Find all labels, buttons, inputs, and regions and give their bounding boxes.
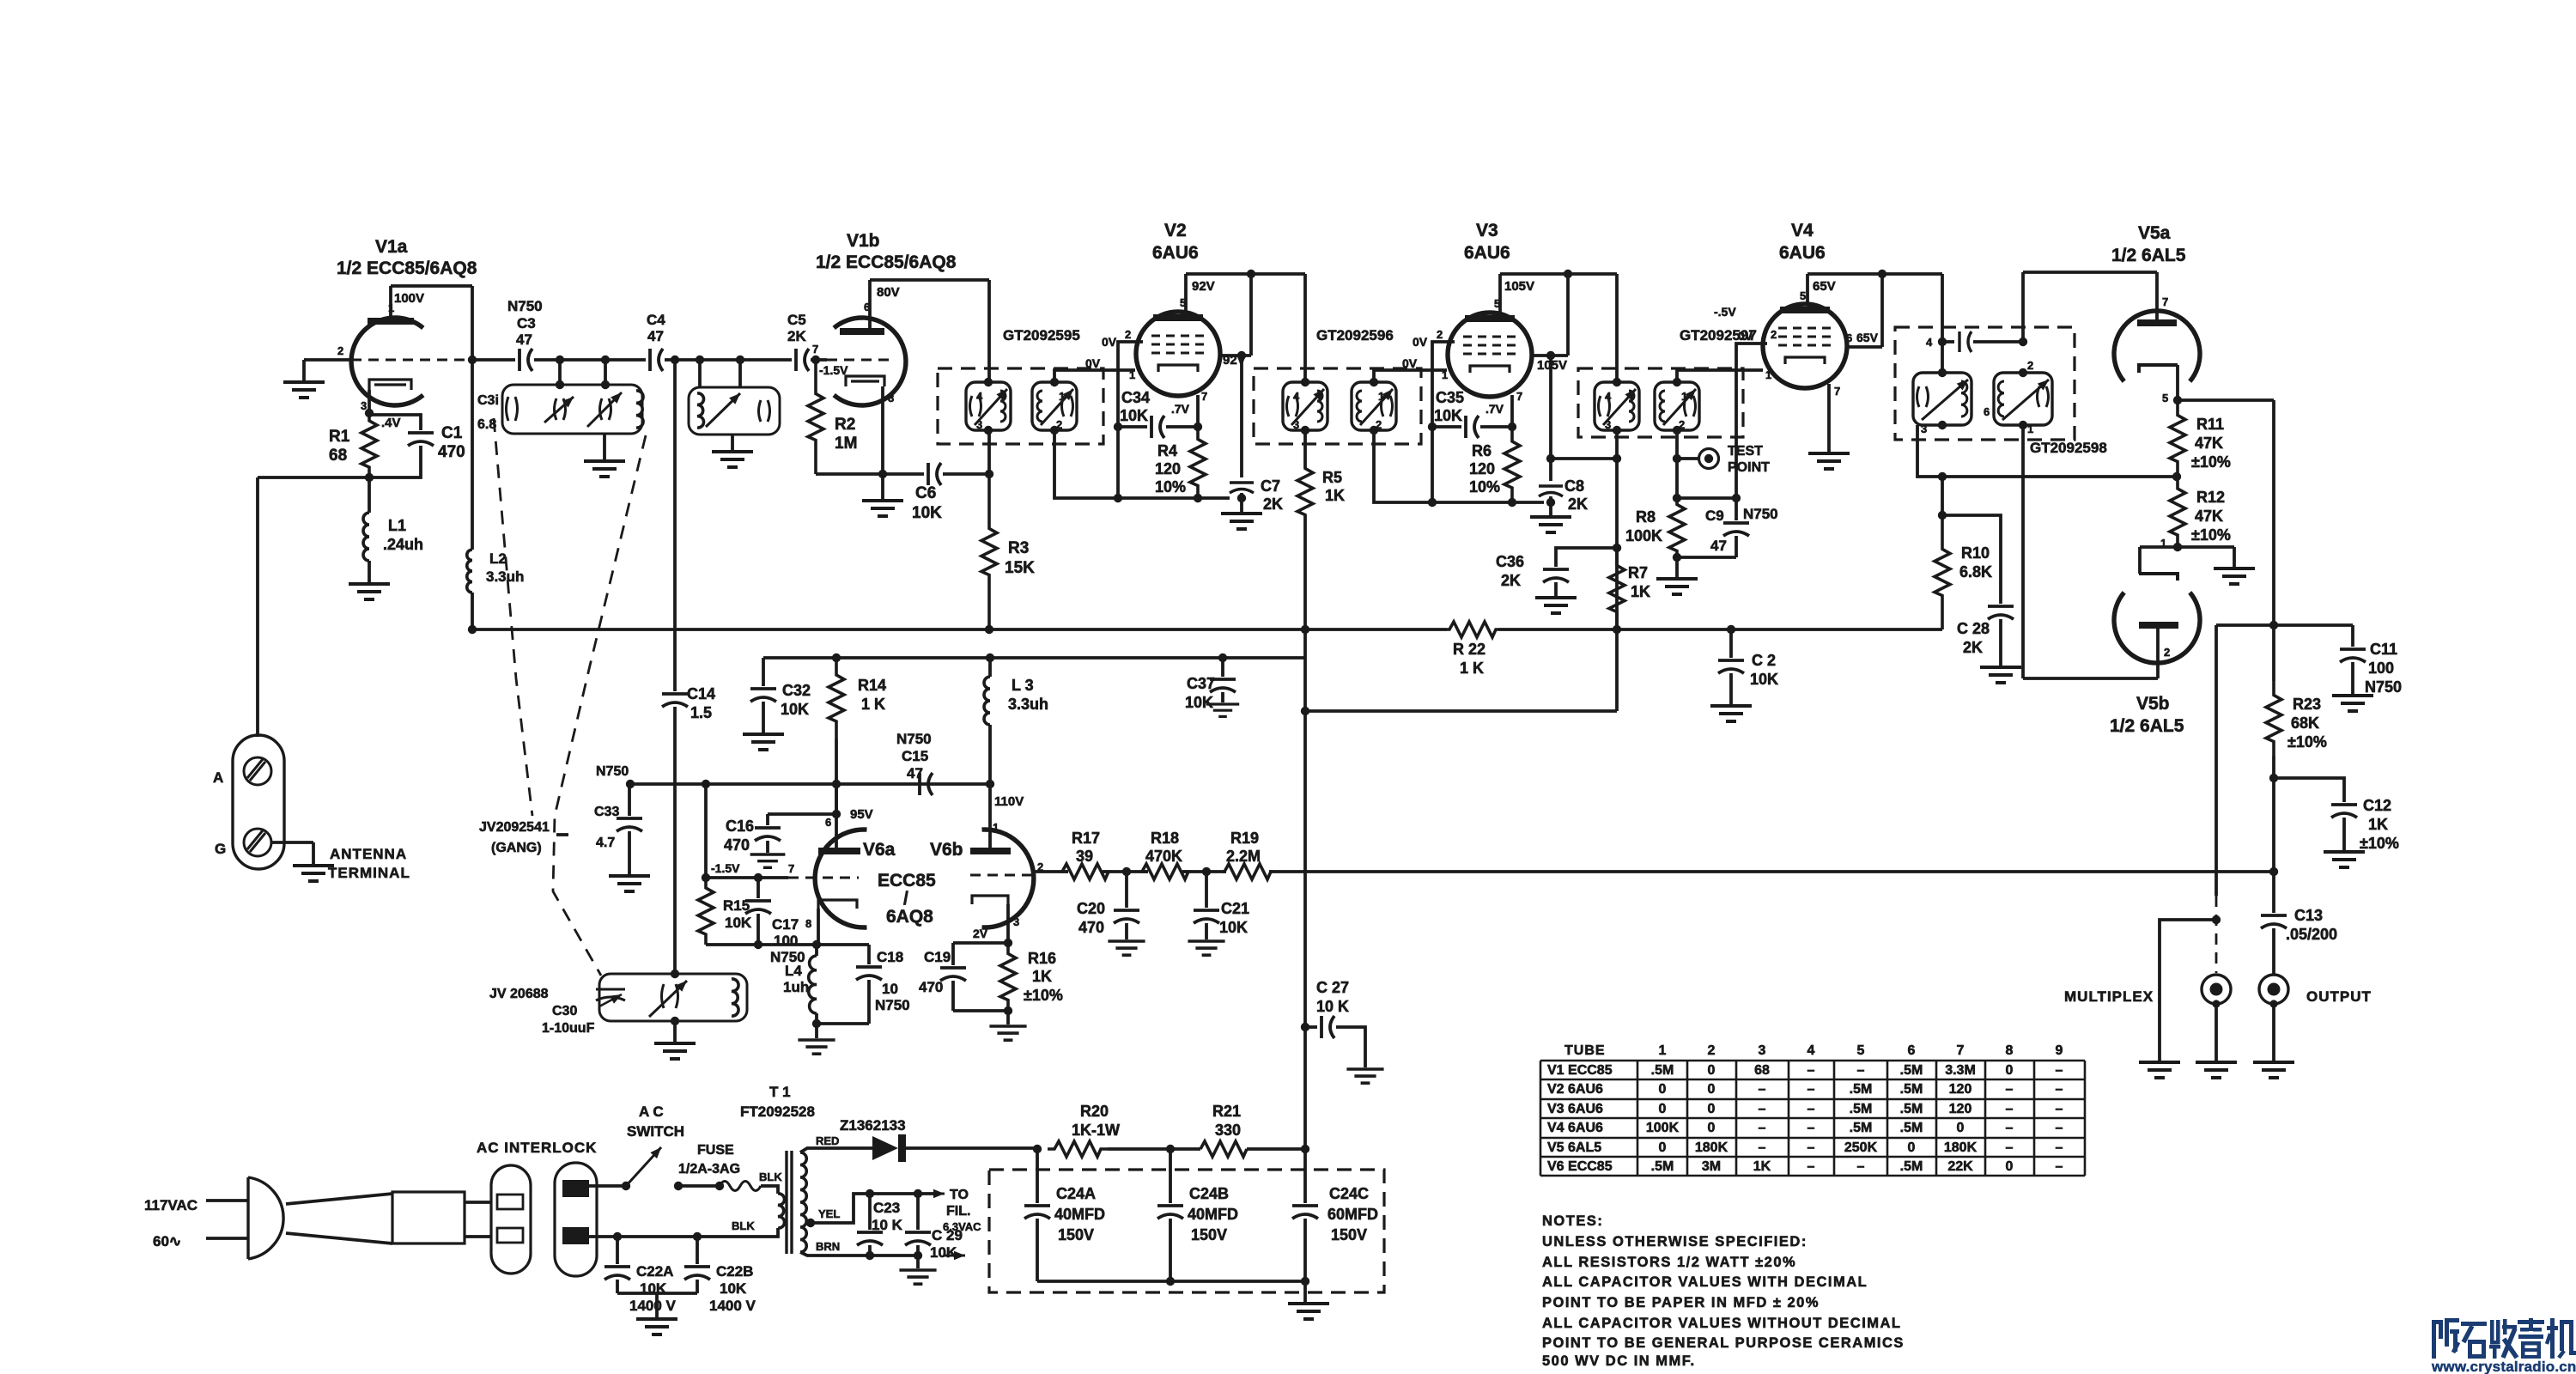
svg-text:R10: R10	[1961, 544, 1990, 562]
junction IF1 pri top	[984, 378, 993, 386]
inductor L4	[809, 956, 817, 1013]
junction R10 tap	[1938, 472, 1947, 481]
V1a plate lead	[389, 286, 392, 318]
ground under C16	[750, 854, 786, 867]
svg-text:Z1362133: Z1362133	[840, 1117, 906, 1134]
svg-text:2K: 2K	[1963, 639, 1983, 656]
capacitor C18	[856, 967, 882, 980]
svg-text:1K: 1K	[1325, 487, 1345, 504]
svg-text:1: 1	[1659, 1043, 1667, 1058]
T1 core a	[785, 1151, 787, 1254]
svg-text:10: 10	[882, 981, 898, 997]
pentode V2	[1136, 312, 1220, 396]
svg-text:R3: R3	[1008, 539, 1029, 557]
junction C20	[1122, 867, 1131, 876]
wire V3 pin2 drop	[1432, 342, 1455, 498]
svg-text:–: –	[1759, 1082, 1766, 1097]
svg-text:.24uh: .24uh	[383, 536, 423, 553]
svg-text:7: 7	[788, 862, 794, 875]
svg-text:1K: 1K	[2368, 816, 2388, 833]
svg-text:180K: 180K	[1944, 1140, 1978, 1155]
wire V1a plate to C3 node	[391, 284, 472, 288]
junction R20 left	[1033, 1145, 1042, 1153]
svg-text:68: 68	[1754, 1063, 1770, 1078]
svg-text:V2: V2	[1164, 221, 1187, 240]
svg-text:–: –	[1807, 1082, 1815, 1097]
junction R11 R12	[2172, 472, 2181, 481]
wire IF1 to R3	[987, 430, 991, 474]
wire G to ground	[271, 841, 313, 844]
wire C23 stem	[868, 1194, 872, 1230]
svg-text:–: –	[1807, 1140, 1815, 1155]
wire C22B lower	[696, 1280, 699, 1293]
wire R5 to bus	[1303, 515, 1307, 629]
svg-text:22K: 22K	[1947, 1159, 1973, 1174]
wire C21 stem	[1205, 872, 1208, 908]
wire C32 to ground	[762, 702, 765, 733]
wire C5 to V1b grid	[811, 358, 827, 362]
svg-text:0: 0	[1659, 1102, 1667, 1116]
junction R15 top	[702, 873, 710, 882]
wire C19 upper	[951, 943, 955, 965]
V6a grid (dashed)	[788, 877, 859, 879]
svg-text:15K: 15K	[1005, 559, 1035, 577]
resistor R19	[1224, 864, 1271, 879]
wire C21 to ground	[1205, 923, 1208, 939]
svg-text:±10%: ±10%	[1024, 987, 1063, 1004]
junction pin2/C9	[1732, 494, 1741, 502]
junction tank1 top a	[556, 380, 564, 389]
svg-text:C4: C4	[647, 312, 665, 328]
svg-text:0: 0	[1908, 1140, 1916, 1155]
junction fuse left	[715, 1182, 724, 1190]
junction osc tank bottom	[671, 1017, 679, 1025]
IF transformer GT2092595 (dashed box)	[938, 368, 1103, 444]
svg-text:1400 V: 1400 V	[709, 1298, 756, 1314]
svg-text:2K: 2K	[1568, 495, 1588, 513]
capacitor C28	[1988, 606, 2014, 619]
svg-text:R7: R7	[1628, 564, 1648, 581]
wire C24C stem	[1303, 1149, 1307, 1203]
wire C8 to ground	[1549, 496, 1552, 515]
svg-text:–: –	[2006, 1082, 2014, 1097]
svg-text:1 K: 1 K	[861, 696, 885, 713]
wire V1b plate rail	[870, 278, 989, 282]
svg-text:470: 470	[919, 979, 943, 995]
svg-text:10%: 10%	[1155, 478, 1186, 495]
wire rail to IF4	[1941, 274, 1944, 373]
capacitor C27 branch	[1305, 1025, 1317, 1029]
svg-text:0: 0	[1708, 1082, 1716, 1097]
wire V3 pin7 lead	[1510, 395, 1514, 427]
ground under C27	[1346, 1069, 1383, 1083]
resistor R7	[1609, 548, 1625, 629]
svg-text:3: 3	[1013, 915, 1019, 928]
junction cathode line	[878, 470, 887, 478]
resistor R4	[1190, 427, 1206, 498]
junction IF2 pri bottom	[1301, 426, 1309, 435]
junction C29 top	[914, 1189, 922, 1198]
T1 secondary winding	[800, 1152, 806, 1252]
wire R8 to ground	[1675, 557, 1679, 577]
svg-text:1: 1	[2027, 423, 2033, 435]
V1b grid (dashed)	[827, 359, 893, 362]
wire B+ riser	[1303, 629, 1307, 1149]
junction R4 top	[1194, 423, 1202, 431]
wire C17 stem	[756, 878, 760, 898]
pentode V3	[1448, 313, 1532, 397]
junction bus R3	[985, 625, 993, 634]
wire C9 top	[1677, 496, 1736, 500]
svg-text:C13: C13	[2294, 907, 2323, 924]
wire C27 to ground	[1336, 1027, 1365, 1067]
wire C22B stem	[696, 1237, 699, 1264]
svg-text:R5: R5	[1322, 469, 1342, 486]
svg-text:150V: 150V	[1191, 1226, 1227, 1243]
gang dashed link b	[553, 435, 646, 976]
resistor R5	[1297, 468, 1313, 515]
ground under C28	[1980, 667, 2021, 683]
svg-text:V1 ECC85: V1 ECC85	[1547, 1063, 1613, 1078]
capacitor C35	[1466, 416, 1479, 438]
svg-text:L2: L2	[489, 550, 507, 567]
junction pin2 line bottom	[1114, 494, 1122, 502]
svg-text:7: 7	[1516, 390, 1522, 403]
svg-text:60MFD: 60MFD	[1327, 1206, 1378, 1223]
svg-text:7: 7	[2162, 295, 2168, 308]
diode V5b envelope	[2114, 593, 2200, 663]
svg-text:.7V: .7V	[1171, 402, 1190, 416]
svg-text:.5M: .5M	[1900, 1063, 1923, 1078]
wire V6a cathode drop	[817, 909, 820, 945]
V6b grid (dashed)	[970, 874, 1033, 877]
junction rail riser	[2269, 621, 2278, 629]
antenna screw A	[244, 757, 271, 785]
wire L4 bottom	[815, 1013, 818, 1024]
svg-text:8: 8	[888, 392, 894, 404]
wire primary bottom lead	[771, 1228, 778, 1237]
svg-text:470: 470	[724, 836, 750, 854]
svg-text:39: 39	[1076, 848, 1093, 865]
ground under C37	[1206, 704, 1239, 716]
resistor R14	[829, 658, 844, 739]
wire R2 line to C6	[816, 472, 924, 476]
svg-text:47: 47	[647, 328, 664, 344]
capacitor C19 loop	[953, 941, 1008, 945]
svg-text:N750: N750	[507, 298, 543, 314]
junction IF3 pri bottom	[1613, 426, 1621, 435]
svg-text:ECC85: ECC85	[878, 871, 936, 891]
wire V6a plate upper	[835, 784, 838, 814]
wire C9 bottom	[1677, 556, 1736, 559]
junction C17 top	[754, 873, 762, 882]
V1b cathode	[846, 376, 884, 386]
junction 95V node	[832, 810, 841, 818]
svg-text:0: 0	[1659, 1140, 1667, 1155]
wire multiplex shield	[2160, 920, 2216, 1061]
svg-text:40MFD: 40MFD	[1054, 1206, 1105, 1223]
svg-text:2.2M: 2.2M	[1226, 848, 1261, 865]
wire V1b cathode drop	[881, 386, 884, 474]
trimmer arrow T1a	[544, 397, 574, 423]
junction C29 bottom	[914, 1251, 922, 1260]
svg-text:.5M: .5M	[1651, 1159, 1674, 1174]
svg-text:10 K: 10 K	[1316, 998, 1349, 1015]
capacitor C3	[519, 349, 532, 371]
variable capacitor arrow T1a (gang)	[587, 392, 622, 427]
capacitor C15	[920, 773, 933, 795]
wire cathode to detector riser	[2178, 398, 2274, 402]
svg-text:C3i: C3i	[477, 393, 499, 408]
svg-text:FUSE: FUSE	[697, 1143, 734, 1158]
svg-text:0: 0	[1957, 1121, 1965, 1135]
svg-text:60∿: 60∿	[153, 1233, 181, 1249]
junction IF1 pri bottom	[984, 426, 993, 435]
svg-text:1: 1	[1129, 368, 1135, 381]
svg-text:V5 6AL5: V5 6AL5	[1547, 1140, 1601, 1155]
wire C24A stem	[1036, 1149, 1039, 1203]
wire C13 to jack	[2272, 928, 2275, 975]
node V1a cathode	[365, 409, 374, 417]
svg-text:C24A: C24A	[1056, 1185, 1096, 1202]
wire switch to fuse	[678, 1184, 720, 1188]
ground multiplex jack	[2196, 1062, 2237, 1078]
svg-text:C 27: C 27	[1316, 979, 1349, 996]
capacitor C21	[1194, 910, 1219, 923]
wire L3 to C15 node	[988, 725, 992, 784]
inductor T1b coil	[697, 393, 704, 428]
svg-text:C5: C5	[787, 312, 806, 328]
junction bus L2	[468, 625, 477, 634]
wire V5a plate lead	[2155, 272, 2159, 319]
svg-text:–: –	[2056, 1063, 2063, 1078]
svg-text:4: 4	[976, 390, 983, 403]
wire multiplex drop solid	[2215, 625, 2218, 896]
svg-text:0V: 0V	[1738, 329, 1753, 343]
wire antenna vertical	[256, 477, 259, 737]
wire osc injection lower	[673, 707, 677, 974]
svg-text:–: –	[2056, 1102, 2063, 1116]
svg-text:65V: 65V	[1856, 331, 1879, 344]
IF transformer GT2092597 (dashed box)	[1578, 368, 1743, 437]
wire V1a grid to ground	[304, 358, 351, 362]
wire screen to rail	[1249, 274, 1253, 356]
wire IF3 sec to V4 grid	[1677, 370, 1763, 382]
svg-text:RED: RED	[816, 1134, 839, 1147]
svg-text:R11: R11	[2196, 416, 2224, 433]
wire IF4 cap left	[1942, 340, 1954, 343]
wire C22A lower	[616, 1280, 619, 1293]
wire tank2 stub a	[698, 360, 702, 387]
svg-text:7: 7	[1957, 1043, 1965, 1058]
svg-text:T 1: T 1	[769, 1084, 791, 1100]
ground under C29	[899, 1270, 936, 1284]
wire to R10	[1941, 477, 1944, 515]
IF2 primary tank	[1283, 382, 1327, 430]
svg-text:C30: C30	[552, 1004, 577, 1018]
wire to C34	[1118, 425, 1147, 429]
wire V6 B+ line	[763, 656, 1305, 660]
wire RF row a	[472, 358, 515, 362]
svg-text:47K: 47K	[2195, 508, 2223, 525]
wire V4 screen stub	[1847, 345, 1882, 349]
svg-text:6: 6	[1984, 405, 1990, 418]
junction V5a cathode	[2173, 396, 2182, 404]
svg-text:.7V: .7V	[1485, 402, 1504, 416]
wire C2 to ground	[1729, 673, 1733, 704]
svg-text:C11: C11	[2370, 641, 2397, 658]
wire -1.5V line	[706, 876, 788, 879]
svg-text:6AU6: 6AU6	[1152, 243, 1199, 263]
svg-text:ALL RESISTORS 1/2 WATT ±20%: ALL RESISTORS 1/2 WATT ±20%	[1542, 1255, 1796, 1270]
svg-text:95V: 95V	[850, 807, 873, 822]
svg-text:0: 0	[1708, 1063, 1716, 1078]
svg-text:–: –	[2056, 1121, 2063, 1135]
svg-text:C23: C23	[873, 1200, 900, 1216]
svg-text:–: –	[2006, 1102, 2014, 1116]
svg-text:C 2: C 2	[1752, 652, 1776, 669]
node R1 bottom	[365, 473, 374, 482]
svg-text:V1b: V1b	[847, 231, 880, 251]
ratio detector transformer GT2092598 (dashed box)	[1895, 327, 2075, 440]
wire L3 top lead	[988, 658, 992, 677]
V6b plate	[970, 848, 1011, 854]
junction row-tank1a	[556, 356, 564, 364]
svg-text:2K: 2K	[1501, 572, 1521, 589]
svg-text:R2: R2	[835, 416, 855, 434]
svg-text:R4: R4	[1157, 442, 1177, 459]
resistor R22	[1447, 622, 1498, 637]
svg-text:TO: TO	[950, 1188, 969, 1202]
wire C33 to ground	[628, 831, 631, 874]
svg-text:47: 47	[1710, 538, 1727, 554]
svg-text:250K: 250K	[1844, 1140, 1878, 1155]
capacitor C20	[1114, 910, 1139, 923]
svg-text:C12: C12	[2363, 797, 2391, 814]
svg-text:117VAC: 117VAC	[144, 1197, 197, 1213]
wire R23 to audio node	[2272, 756, 2275, 872]
wire C37 stem	[1221, 658, 1224, 677]
wire grid drop to -1.5V	[704, 784, 708, 878]
tube voltage table	[1540, 1061, 2085, 1176]
capacitor C4	[650, 349, 663, 371]
svg-text:YEL: YEL	[818, 1207, 840, 1220]
svg-text:1uh: 1uh	[783, 979, 809, 995]
svg-text:1K: 1K	[1032, 968, 1052, 985]
wire V2 screen stub	[1220, 354, 1251, 357]
svg-text:40MFD: 40MFD	[1188, 1206, 1238, 1223]
wire IF2 sec to V3 grid	[1374, 370, 1447, 382]
junction V4 screen rail	[1878, 270, 1886, 278]
junction R20 R21	[1166, 1145, 1175, 1153]
wire V3 plate lead	[1498, 274, 1502, 313]
svg-text:1/2 6AL5: 1/2 6AL5	[2110, 716, 2184, 736]
wire V5b plate lead	[2156, 629, 2160, 678]
junction IF1 sec top	[1050, 378, 1059, 386]
resistor R20	[1048, 1141, 1108, 1157]
svg-text:.5M: .5M	[1651, 1063, 1674, 1078]
V5b cathode	[2139, 574, 2178, 581]
svg-text:110V: 110V	[994, 794, 1024, 809]
svg-text:V3 6AU6: V3 6AU6	[1547, 1102, 1603, 1116]
svg-text:–: –	[1807, 1102, 1815, 1116]
V6b cathode	[972, 896, 1008, 904]
svg-text:1M: 1M	[835, 435, 857, 453]
svg-text:FT2092528: FT2092528	[740, 1103, 815, 1120]
wire bus left segment	[472, 628, 1447, 631]
junction bus C2	[1727, 625, 1735, 634]
capacitor C16	[755, 828, 781, 841]
wire R17 R18	[1103, 870, 1148, 873]
svg-text:MULTIPLEX: MULTIPLEX	[2064, 988, 2154, 1005]
ground under C24	[1288, 1304, 1329, 1319]
junction C17 bottom	[754, 940, 762, 949]
wire bus right segment	[1498, 628, 1942, 631]
svg-text:4: 4	[1926, 336, 1933, 349]
AC plug	[248, 1177, 283, 1259]
ground V4 cathode	[1808, 453, 1850, 469]
svg-text:470: 470	[438, 443, 465, 461]
wire osc tank ground stem	[673, 1021, 677, 1042]
svg-text:C1: C1	[441, 424, 463, 442]
wire IF4 pin3 return	[1917, 425, 2177, 477]
wire C24B lower	[1169, 1219, 1172, 1281]
fuse 1/2A-3AG	[720, 1182, 761, 1191]
svg-text:2: 2	[337, 344, 343, 357]
svg-text:10K: 10K	[781, 701, 809, 718]
wire V4 plate rail	[1807, 272, 1942, 276]
svg-text:6AU6: 6AU6	[1464, 243, 1510, 263]
wire C24 ground stem	[1303, 1281, 1307, 1302]
junction screen rail	[1247, 270, 1255, 278]
svg-text:OUTPUT: OUTPUT	[2306, 988, 2372, 1005]
wire tank2 stub b	[738, 360, 742, 387]
ground under C32	[743, 734, 784, 750]
pentode V4	[1763, 304, 1847, 388]
resistor R17	[1062, 864, 1109, 879]
resistor R11	[2170, 400, 2185, 477]
svg-text:3: 3	[1759, 1043, 1766, 1058]
svg-text:–: –	[1807, 1121, 1815, 1135]
svg-text:4: 4	[1605, 390, 1612, 403]
line cord	[392, 1192, 465, 1243]
wire V1a plate drop	[471, 286, 474, 550]
svg-text:92V: 92V	[1192, 279, 1215, 294]
resistor R3	[981, 474, 997, 629]
svg-text:68K: 68K	[2291, 714, 2319, 732]
junction audio output node	[2269, 867, 2278, 876]
svg-text:100K: 100K	[1625, 527, 1662, 544]
resistor R23	[2266, 681, 2281, 756]
IF3 secondary tank	[1655, 382, 1699, 430]
svg-text:–: –	[2056, 1140, 2063, 1155]
junction R8 top	[1673, 494, 1681, 502]
wire grid ground stem	[302, 360, 306, 380]
junction C22B	[693, 1232, 702, 1241]
wire R21 to B+ node	[1247, 1147, 1305, 1151]
ground under R8	[1656, 579, 1698, 594]
ground V1b cathode	[862, 501, 903, 516]
svg-text:2K: 2K	[1263, 495, 1283, 513]
wire rail to IF2	[1303, 274, 1307, 382]
wire C1 branch bottom	[369, 446, 421, 477]
svg-text:–: –	[2006, 1140, 2014, 1155]
wire C24 common	[1037, 1280, 1305, 1283]
junction C8 line	[1546, 498, 1555, 507]
capacitor C1	[408, 433, 434, 446]
test point	[1699, 449, 1719, 469]
wire V6b plate lead	[988, 784, 992, 848]
